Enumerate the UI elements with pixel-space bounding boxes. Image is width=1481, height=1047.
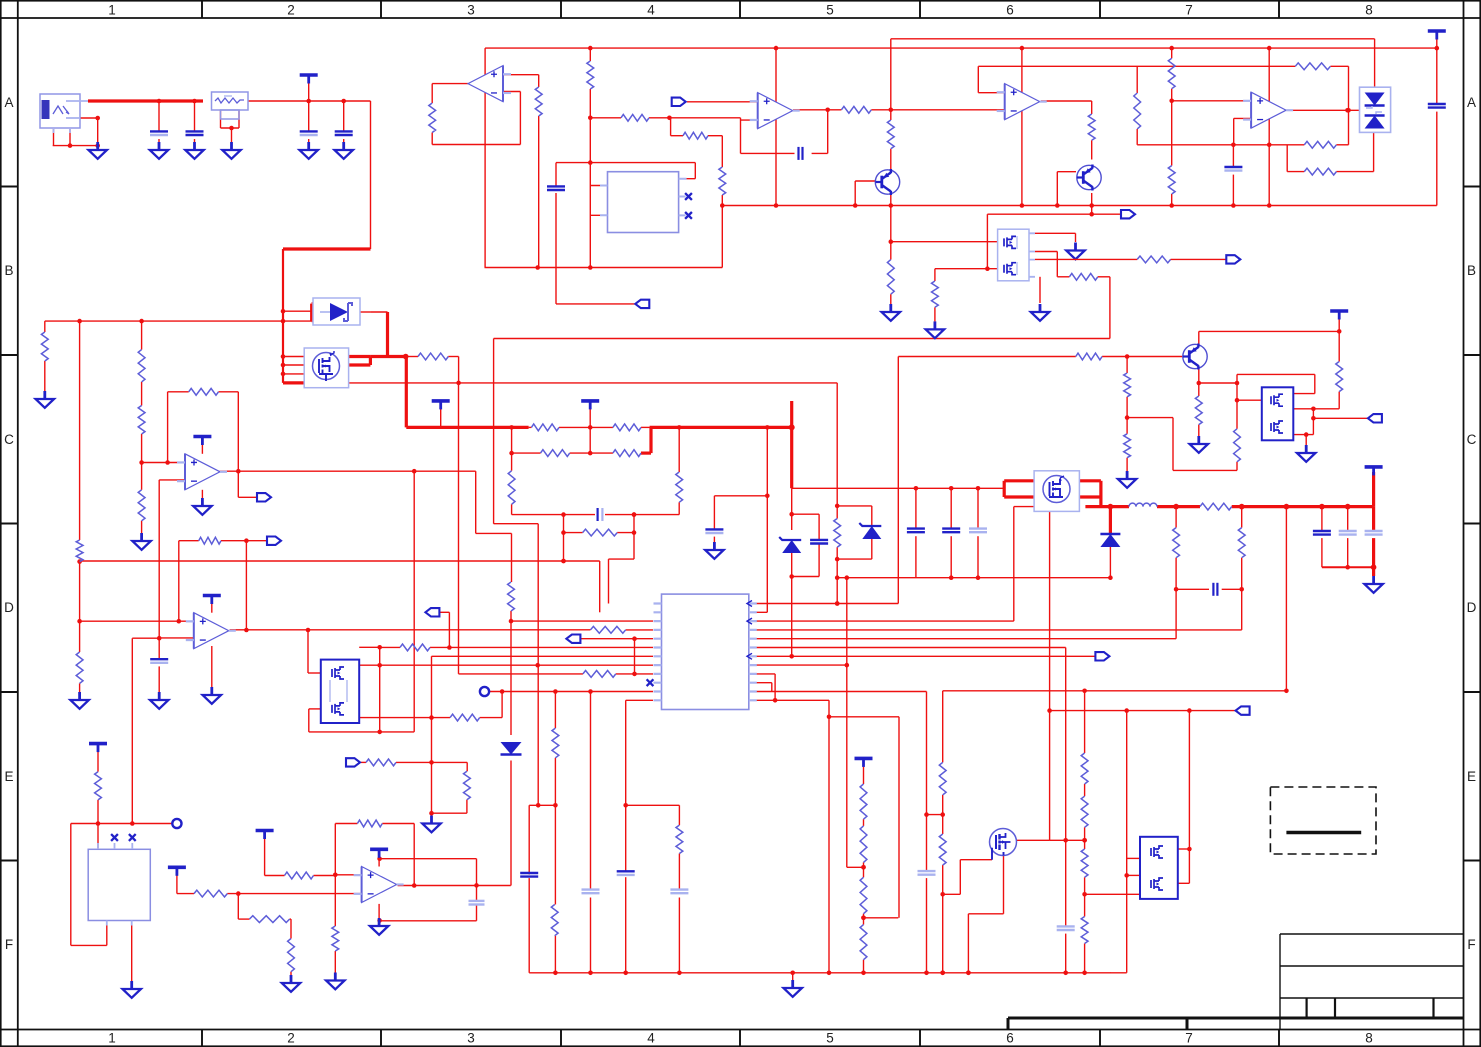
capacitor C4	[335, 131, 353, 135]
wire net540 a	[179, 540, 199, 542]
wire R22 link	[1171, 101, 1173, 166]
wire x829 drop	[828, 700, 830, 973]
wire net589 b	[1222, 588, 1242, 590]
wire rail A	[891, 38, 1375, 40]
svg-text:4: 4	[647, 3, 655, 18]
resistor R69	[932, 281, 939, 307]
svg-text:E: E	[4, 769, 13, 784]
wire R27 drop	[458, 357, 460, 383]
resistor R43	[288, 939, 295, 972]
wire U6 VCC stem	[201, 441, 203, 454]
resistor R5	[683, 132, 708, 139]
junction	[985, 266, 990, 271]
junction	[940, 812, 945, 817]
wire x1237 b	[1236, 462, 1238, 471]
junction	[889, 203, 894, 208]
wire net66	[978, 65, 1295, 67]
wire row2 thick riser	[649, 427, 652, 453]
capacitor C6	[799, 147, 803, 160]
wire R73 top lead	[511, 453, 513, 471]
dual MOSFET module M5	[1262, 387, 1294, 440]
wire C14 gnd lead	[158, 666, 160, 692]
wire x1189 drop	[1188, 711, 1190, 884]
wire sensor loop drop	[70, 824, 72, 946]
schottky diode D1	[313, 298, 360, 325]
wire net523 jog	[494, 523, 539, 525]
junction	[1108, 504, 1114, 510]
wire U4 supply	[1021, 48, 1023, 205]
wire x529 drop	[528, 805, 530, 874]
wire railA stub	[890, 39, 892, 48]
wire net383	[1199, 382, 1237, 384]
wire gate2 corner	[934, 269, 936, 281]
wire U3 pin2	[590, 214, 607, 216]
junction	[632, 530, 637, 535]
wire sensor gnd	[131, 921, 133, 983]
wire R47 drop b	[1241, 558, 1243, 630]
no-connect	[129, 834, 136, 841]
wire V+ drop	[476, 859, 478, 901]
resistor R41	[194, 890, 227, 897]
junction	[1063, 971, 1068, 976]
svg-text:3: 3	[467, 1031, 475, 1046]
port flag	[1368, 414, 1382, 422]
svg-text:7: 7	[1185, 1031, 1193, 1046]
wire x791 a	[791, 488, 793, 530]
junction	[889, 239, 894, 244]
diode D5	[501, 742, 522, 755]
port flag	[672, 98, 686, 106]
wire U6 plus line	[142, 462, 185, 464]
ground	[335, 142, 353, 159]
wire fb2 left	[1287, 171, 1304, 173]
wire U1 minus jog	[740, 118, 742, 154]
wire pin12 right	[749, 699, 829, 701]
resistor R58	[860, 784, 867, 819]
wire U6 minus	[159, 479, 185, 481]
port flag	[1095, 652, 1109, 660]
wire R34 right	[626, 629, 653, 631]
junction	[281, 363, 286, 368]
wire x926 drop	[926, 692, 928, 871]
wire R8 top lead	[538, 75, 540, 87]
wire U5 out	[1286, 109, 1359, 111]
junction	[456, 381, 461, 386]
wire R31 top lead	[678, 427, 680, 472]
revision underline	[1286, 831, 1361, 834]
wire D4 drop	[1109, 507, 1112, 534]
wire M3 out a	[1178, 848, 1190, 850]
wire drain bus	[370, 355, 406, 358]
junction	[1047, 708, 1052, 713]
resistor R46	[366, 759, 396, 766]
wire cap C5 bot	[343, 139, 345, 143]
wire U6 fb right	[219, 391, 239, 393]
wire cap C3 bot	[194, 139, 196, 143]
wire gnd972 stem	[792, 973, 794, 981]
resistor R52	[1336, 362, 1343, 392]
junction	[281, 372, 286, 377]
resistor R15	[1304, 168, 1336, 175]
junction	[1284, 689, 1289, 694]
wire C8 right	[812, 152, 828, 154]
junction	[632, 512, 637, 517]
wire zener top link	[837, 505, 872, 507]
wire x791 b	[791, 551, 793, 656]
junction	[412, 883, 417, 888]
wire U7 minus	[159, 637, 194, 639]
wire U6 VSS stem	[201, 490, 203, 498]
wire x590 drop	[590, 692, 592, 891]
resistor R56	[1173, 528, 1180, 558]
revision dashed box	[1270, 787, 1376, 854]
power flag VREF	[581, 401, 599, 410]
wire drain bus drop	[405, 357, 408, 428]
wire C17 top	[950, 488, 952, 528]
junction	[677, 425, 682, 430]
junction	[1089, 203, 1094, 208]
wire net267	[485, 267, 723, 269]
junction	[588, 46, 593, 51]
wire U8 minus line	[177, 893, 194, 895]
wire net532 b	[617, 532, 634, 534]
no-connect	[685, 212, 692, 219]
wire C15 top	[713, 496, 715, 529]
wire C16 top	[915, 488, 917, 528]
svg-text:F: F	[5, 937, 13, 952]
wire net589 a	[1176, 588, 1209, 590]
wire Q3 pin s1	[283, 356, 304, 358]
wire M2 sense drop	[1049, 511, 1051, 840]
wire C26 bot lead	[818, 544, 820, 577]
wire M4 out1	[359, 646, 380, 648]
port flag	[1226, 255, 1240, 263]
junction	[924, 971, 929, 976]
wire x1173 drop	[1172, 418, 1174, 471]
junction	[774, 46, 779, 51]
wire x466 low	[466, 800, 468, 814]
wire x511 low	[510, 761, 512, 886]
wire M5 link	[1312, 409, 1314, 435]
wire Q10 s1 link	[1035, 251, 1057, 253]
wire U4 out	[1041, 100, 1092, 102]
wire R pulldown gnd1	[890, 294, 892, 304]
wire R8 bottom long	[538, 116, 540, 268]
wire VDD rail	[485, 47, 1437, 49]
wire x846 drop	[846, 578, 848, 868]
wire R pulldown gnd2	[934, 307, 936, 321]
transistor Q5	[1183, 344, 1207, 370]
wire M2 out b	[1079, 495, 1101, 498]
junction	[588, 265, 593, 270]
wire U5 minus	[1234, 117, 1251, 119]
junction	[632, 672, 637, 677]
svg-text:6: 6	[1006, 3, 1014, 18]
wire row2 b	[570, 452, 613, 454]
wire R51 drop	[290, 919, 292, 938]
wire pin1 jog	[609, 558, 635, 560]
wire C18 top	[977, 488, 979, 528]
junction	[281, 354, 286, 359]
wire R16 lead a	[1057, 276, 1069, 278]
svg-text:C: C	[4, 432, 14, 447]
wire R50 drop	[237, 894, 239, 920]
capacitor C24	[918, 871, 936, 875]
wire pin7 left	[432, 655, 654, 657]
wire D4 bot	[1109, 547, 1111, 578]
junction	[825, 108, 830, 113]
wire C16 bot	[915, 536, 917, 578]
bridge hooks	[1366, 106, 1382, 114]
wire net417	[1127, 417, 1173, 419]
junction	[561, 512, 566, 517]
wire row2 a	[512, 452, 541, 454]
svg-text:2: 2	[287, 3, 295, 18]
svg-text:E: E	[1467, 769, 1476, 784]
junction	[720, 203, 725, 208]
wire Q3 drain bracket	[369, 357, 372, 366]
junction	[1311, 416, 1316, 421]
junction	[853, 203, 858, 208]
power flag VCC	[300, 75, 318, 84]
dual MOSFET module M4	[321, 660, 359, 723]
ground	[185, 142, 203, 159]
ground	[926, 321, 944, 338]
wire R47 top bend	[466, 762, 468, 771]
junction	[773, 698, 778, 703]
wire U7 out	[230, 629, 591, 631]
wire VCC9 stem	[264, 835, 266, 876]
dual MOSFET module M3	[1140, 837, 1178, 899]
junction	[474, 883, 479, 888]
no-connect	[111, 834, 118, 841]
wire x1065 upper	[1065, 648, 1067, 927]
wire VCC7 stem	[97, 748, 99, 772]
wire U2 fb right	[519, 92, 521, 145]
ground	[784, 980, 802, 997]
junction	[509, 451, 514, 456]
wire fb2 drop	[1286, 145, 1288, 172]
wire Q3 pin s3	[283, 373, 304, 375]
wire net110	[871, 109, 1004, 111]
wire R18 link	[1330, 65, 1348, 67]
wire out line 885	[398, 885, 511, 887]
wire x141 b	[141, 382, 143, 406]
diode D3b	[1365, 116, 1385, 129]
wire R46 drop a	[1175, 507, 1177, 528]
junction	[845, 575, 850, 580]
opto pin stubs	[600, 179, 687, 216]
wire conn bottom1	[53, 128, 55, 146]
wire pin6 a	[380, 646, 400, 648]
wire Q5 emitter	[1198, 369, 1200, 396]
junction	[244, 538, 249, 543]
svg-text:5: 5	[826, 3, 834, 18]
svg-text:1: 1	[108, 1031, 116, 1046]
wire x890 below rail	[890, 206, 892, 260]
wire railA corner drop	[1374, 39, 1376, 87]
capacitor C13	[969, 529, 987, 533]
wire U2 supply drop	[484, 48, 486, 267]
wire pin5-9 link	[634, 639, 636, 674]
wire R17 to flag	[1171, 258, 1227, 260]
junction	[1235, 398, 1240, 403]
wire zener bot link	[837, 558, 872, 560]
op-amp U5	[1243, 92, 1293, 128]
junction	[861, 916, 866, 921]
wire net805a	[529, 804, 555, 806]
fuse F1	[212, 92, 249, 119]
resistor R71	[450, 714, 480, 721]
wire Q1 base riser	[854, 181, 856, 206]
capacitor C16	[582, 890, 600, 894]
wire x555 d	[554, 936, 556, 973]
wire gnd stem thick	[1372, 567, 1375, 576]
wire Q2 collector	[1091, 140, 1093, 159]
wire x634 link	[633, 515, 635, 533]
junction	[377, 730, 382, 735]
wire x414 drop	[413, 471, 415, 732]
wire sensor pin1	[97, 824, 99, 850]
wire tvs link	[283, 310, 312, 312]
svg-text:C: C	[1467, 432, 1477, 447]
resistor R33	[199, 537, 221, 544]
wire bus427 c	[559, 426, 613, 428]
junction	[429, 811, 434, 816]
wire gate line	[960, 859, 992, 861]
wire net374	[1237, 373, 1315, 375]
wire x679 drop	[678, 805, 680, 825]
capacitor C18	[670, 890, 688, 894]
wire kelvin net	[349, 382, 838, 384]
wire x722 upper	[721, 136, 723, 167]
wire U6 fb riser	[167, 392, 169, 463]
junction	[966, 971, 971, 976]
wire net162	[556, 162, 695, 164]
wire x590 link	[589, 427, 591, 453]
wire D3 bottom riser	[1373, 132, 1375, 171]
junction	[632, 512, 637, 517]
wire x1237 a	[1236, 374, 1238, 428]
junction	[509, 619, 514, 624]
junction	[588, 689, 593, 694]
wire pin1 riser	[608, 559, 610, 603]
junction	[1435, 46, 1440, 51]
wire x625 drop	[625, 700, 627, 805]
wire U3 pin6	[679, 178, 695, 180]
wire x1084 upper	[1084, 691, 1086, 753]
wire x679 mid	[678, 854, 680, 891]
wire R55 gnd lead	[97, 800, 99, 824]
wire R72 top link	[511, 533, 513, 582]
svg-text:6: 6	[1006, 1031, 1014, 1046]
wire R71 link	[480, 717, 502, 719]
junction	[1267, 143, 1272, 148]
wire net321	[45, 320, 312, 322]
wire x942 a	[942, 691, 944, 763]
dual MOSFET block Q10	[998, 229, 1029, 281]
wire U4 plus	[978, 92, 1004, 94]
junction	[1231, 203, 1236, 208]
wire R40 link	[1126, 357, 1128, 374]
resistor R13	[1295, 63, 1330, 70]
wire pin2 riser	[599, 561, 601, 612]
wire net823	[71, 823, 172, 825]
wire net894	[943, 893, 961, 895]
wire R51 lead	[290, 918, 291, 920]
wire Q10 s2 drop	[1039, 277, 1041, 303]
svg-text:7: 7	[1185, 3, 1193, 18]
wire R16 lead b	[1098, 276, 1110, 278]
wire pin8	[359, 664, 653, 666]
resistor R59	[860, 826, 867, 863]
wire C15 bot	[713, 537, 715, 550]
resistor R39	[551, 905, 558, 936]
svg-text:A: A	[1467, 95, 1476, 110]
port flag	[1121, 210, 1135, 218]
wire pin6 b	[430, 646, 653, 648]
wire C7 top lead	[555, 163, 557, 186]
wire U8 fb riser	[334, 824, 336, 875]
resistor R30	[676, 472, 683, 502]
wire net917	[864, 917, 899, 919]
resistor R3	[587, 61, 594, 89]
junction	[1020, 203, 1025, 208]
capacitor C20	[1313, 531, 1331, 535]
wire Q4 drain	[1017, 839, 1050, 841]
wire x178 drop	[178, 541, 180, 622]
resistor R44	[357, 820, 382, 827]
ground	[123, 981, 141, 998]
wire x141 c	[141, 434, 143, 490]
wire R21 top	[1171, 48, 1173, 58]
junction	[949, 486, 954, 491]
power flag VCC	[203, 596, 221, 605]
junction	[139, 460, 144, 465]
resistor R9	[1134, 93, 1141, 129]
junction	[177, 619, 182, 624]
resistor R20	[531, 424, 559, 431]
wire Q1 base	[855, 180, 876, 182]
PWM controller U9	[662, 594, 749, 709]
junction	[1284, 504, 1290, 510]
wire C23 drop	[1372, 507, 1375, 531]
wire U8 plus	[335, 874, 361, 876]
junction	[281, 309, 286, 314]
wire C11 bot	[1436, 112, 1438, 206]
wire bus427 e	[650, 426, 792, 429]
wire U3 pin1	[590, 185, 607, 187]
ground	[882, 304, 900, 321]
wire x679 low	[678, 898, 680, 973]
junction	[1124, 873, 1129, 878]
resistor R60	[860, 877, 867, 913]
wire R41 gnd	[1126, 458, 1128, 471]
wire gnd813 stem	[431, 813, 433, 816]
wire net408	[1293, 408, 1339, 410]
wire M5 gnd stem	[1305, 435, 1307, 446]
wire x625 low	[625, 805, 627, 872]
wire U3 pin riser	[694, 163, 696, 179]
no-connect	[647, 679, 654, 686]
junction	[1082, 971, 1087, 976]
wire U6 port drop	[237, 471, 239, 497]
resistor R57	[1238, 528, 1245, 558]
wire fuse loop left	[220, 110, 222, 128]
junction	[1082, 838, 1087, 843]
wire Q5 em gnd	[1198, 425, 1200, 437]
wire Q3 drain thick b	[349, 363, 371, 366]
